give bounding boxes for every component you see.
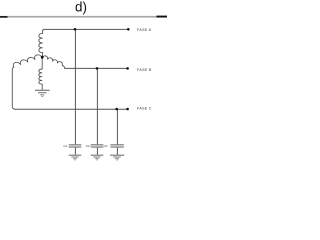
svg-text:C1: C1 bbox=[63, 144, 67, 148]
svg-text:FASE C: FASE C bbox=[137, 107, 152, 111]
svg-text:d): d) bbox=[75, 0, 87, 14]
svg-text:FASE A: FASE A bbox=[137, 28, 152, 32]
svg-text:C2: C2 bbox=[86, 144, 90, 148]
svg-text:FASE B: FASE B bbox=[137, 68, 152, 72]
svg-text:C3: C3 bbox=[104, 144, 108, 148]
